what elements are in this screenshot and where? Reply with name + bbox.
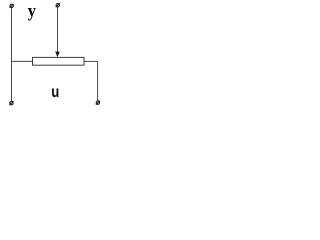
terminal T1 (top-left, circle with slash) <box>10 4 14 8</box>
wire right vertical (to T4) <box>97 61 99 100</box>
background <box>0 0 121 110</box>
wire right stub from resistor <box>84 60 98 62</box>
terminal T2 (top-middle, circle with slash) <box>56 3 60 7</box>
resistor body R (potentiometer track) <box>33 57 85 65</box>
svg-text:y: y <box>28 1 36 21</box>
terminal T3 (bottom-left, circle with slash) <box>9 101 13 105</box>
wiper arrowhead <box>55 52 60 58</box>
wire left stub to resistor <box>12 60 33 62</box>
wire wiper vertical (T2 down) <box>57 7 59 52</box>
svg-text:u: u <box>51 84 59 101</box>
wire left vertical (T1 to T3) <box>11 8 13 101</box>
terminal T4 (bottom-right, circle with slash) <box>96 101 100 105</box>
